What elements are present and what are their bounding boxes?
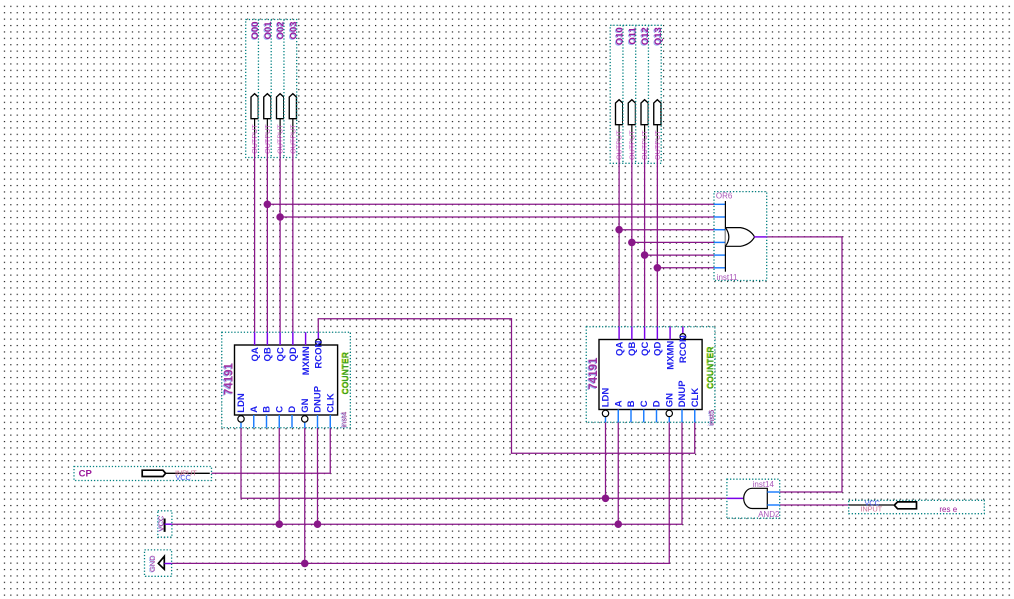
pin U2 C xyxy=(643,410,645,423)
svg-text:RCON: RCON xyxy=(678,335,689,363)
pin U1 DNUP xyxy=(317,415,319,428)
svg-text:LDN: LDN xyxy=(601,388,612,408)
wire OR6 output to AND2 input 1 xyxy=(767,237,842,492)
wire net Q10 to U2 QA xyxy=(618,143,620,327)
selection box left output group xyxy=(246,20,297,158)
counter U1 74191 xyxy=(222,332,351,428)
svg-text:LDN: LDN xyxy=(236,393,247,413)
pin U2 LDN with inversion bubble xyxy=(605,417,607,423)
input pin shape CP xyxy=(142,470,165,476)
wire net Q11 branch to OR6 input 4 xyxy=(632,241,714,243)
pin VCC xyxy=(165,523,172,525)
junction at Q13/OR6 input 6 xyxy=(654,264,662,272)
selection box right output group xyxy=(610,25,661,163)
junction at U1 C / VCC rail xyxy=(275,520,283,528)
svg-text:O03: O03 xyxy=(288,21,299,39)
wire net Q13 branch to OR6 input 6 xyxy=(657,267,714,269)
svg-text:QB: QB xyxy=(627,342,638,356)
wire net O03 to U1 QD xyxy=(292,137,294,333)
wire net O02 branch to OR6 input 2 xyxy=(280,216,714,218)
svg-text:QD: QD xyxy=(288,347,299,361)
pin OR6 input 5 xyxy=(714,254,725,256)
pin AND2 output xyxy=(727,497,743,499)
svg-text:B: B xyxy=(626,400,637,407)
output connector Q11 xyxy=(623,25,638,163)
junction at Q11/OR6 input 4 xyxy=(628,239,636,247)
wire net O00 to U1 QA xyxy=(254,137,256,333)
wire U2 A to VCC rail xyxy=(617,422,619,524)
wire net O02 to U1 QC xyxy=(279,137,281,333)
pin U2 QB xyxy=(631,327,633,340)
pin OR6 input 3 xyxy=(714,229,725,231)
pin AND2 input 2 xyxy=(767,504,779,506)
output connector Q10 xyxy=(610,25,625,163)
wire res_e input to AND2 input 2 xyxy=(780,504,849,506)
GND triangle xyxy=(158,556,164,569)
svg-text:DNUP: DNUP xyxy=(313,385,324,413)
junction at Q12/OR6 input 5 xyxy=(641,251,649,259)
junction at U2 A / VCC rail xyxy=(614,520,622,528)
wire net O01 to U1 QB xyxy=(266,137,268,333)
svg-text:QA: QA xyxy=(250,347,261,361)
pin U1 QC xyxy=(279,332,281,345)
wire net Q13 to U2 QD xyxy=(656,143,658,327)
svg-text:MXMN: MXMN xyxy=(665,341,676,370)
svg-text:QA: QA xyxy=(614,342,625,356)
svg-text:RCON: RCON xyxy=(314,340,325,368)
ground symbol GND xyxy=(145,550,172,576)
svg-text:VCC: VCC xyxy=(156,515,165,531)
pin GND xyxy=(164,563,171,565)
svg-text:inst4: inst4 xyxy=(340,412,349,428)
pin OR6 input 2 xyxy=(714,216,725,218)
wire U1 DNUP to VCC rail xyxy=(317,428,319,524)
svg-text:CP: CP xyxy=(79,468,93,479)
pin U1 GN with inversion bubble xyxy=(304,422,306,428)
pin U2 QA xyxy=(618,327,620,340)
pin U1 QD xyxy=(292,332,294,345)
wire LDN net from U1 LDN to AND2 output xyxy=(241,428,727,499)
output connector O02 xyxy=(271,20,286,158)
pin U1 MXMN xyxy=(305,332,307,345)
pin U2 DNUP xyxy=(681,410,683,423)
output connector O03 xyxy=(284,20,299,158)
pin U2 RCON with inversion bubble xyxy=(682,327,684,334)
wire VCC rail xyxy=(172,422,682,524)
wire U1 RCON to U2 CLK xyxy=(318,319,695,454)
wire net Q10 branch to OR6 input 3 xyxy=(619,229,714,231)
pin OR6 input 6 xyxy=(714,267,725,269)
svg-text:inst14: inst14 xyxy=(753,480,775,489)
svg-text:COUNTER: COUNTER xyxy=(706,346,716,389)
wire CP input to U1 CLK xyxy=(210,428,330,473)
pin AND2 input 1 xyxy=(767,491,779,493)
svg-text:74191: 74191 xyxy=(588,357,600,390)
input pin shape res_e xyxy=(849,504,894,506)
pin U1 C xyxy=(278,415,280,428)
pin U1 QB xyxy=(266,332,268,345)
pin U1 QA xyxy=(254,332,256,345)
and-gate AND2 body xyxy=(744,488,768,508)
pin U2 CLK xyxy=(694,410,696,423)
power symbol VCC xyxy=(156,511,172,537)
svg-text:QD: QD xyxy=(653,342,664,356)
pin U1 CLK xyxy=(329,415,331,428)
junction at O02/OR6 input 2 xyxy=(276,213,284,221)
svg-text:MXMN: MXMN xyxy=(301,346,312,375)
output connector Q12 xyxy=(636,25,651,163)
wire net Q11 to U2 QB xyxy=(631,143,633,327)
svg-text:GN: GN xyxy=(664,393,675,407)
svg-text:GND: GND xyxy=(148,555,157,572)
pin U2 QC xyxy=(644,327,646,340)
junction at U1 GN / GND rail xyxy=(301,560,309,568)
pin OR6 input 1 xyxy=(714,203,725,205)
pin U2 GN with inversion bubble xyxy=(668,417,670,423)
pin U1 B xyxy=(266,415,268,428)
wire net Q12 to U2 QC xyxy=(644,143,646,327)
svg-text:VCC: VCC xyxy=(176,473,192,482)
svg-text:C: C xyxy=(639,400,650,407)
svg-text:inst5: inst5 xyxy=(707,410,716,426)
junction at U1 DNUP / VCC rail xyxy=(314,520,322,528)
pin U1 RCON with inversion bubble xyxy=(317,332,319,339)
svg-text:QC: QC xyxy=(275,347,286,361)
output connector O01 xyxy=(258,20,273,158)
wire U1 GN to GND rail xyxy=(304,428,306,564)
svg-text:C: C xyxy=(274,406,285,413)
or-gate OR6 input bar xyxy=(724,201,726,272)
wire GND rail xyxy=(172,422,670,563)
svg-text:QB: QB xyxy=(263,347,274,361)
input connector CP xyxy=(74,467,212,482)
svg-text:D: D xyxy=(652,400,663,407)
svg-text:B: B xyxy=(262,406,273,413)
pin OR6 output xyxy=(754,236,767,238)
pin U1 LDN with inversion bubble xyxy=(240,422,242,428)
pin OR6 input 4 xyxy=(714,241,725,243)
svg-text:Q13: Q13 xyxy=(653,27,664,45)
wire net O01 branch to OR6 input 1 xyxy=(267,203,714,205)
pin U2 D xyxy=(656,410,658,423)
svg-text:COUNTER: COUNTER xyxy=(340,351,350,394)
svg-text:INPUT: INPUT xyxy=(861,505,883,514)
pin U2 MXMN xyxy=(669,327,671,340)
junction at Q10/OR6 input 3 xyxy=(615,226,623,234)
svg-text:GN: GN xyxy=(300,398,311,412)
pin U2 B xyxy=(630,410,632,423)
junction at O01/OR6 input 1 xyxy=(264,201,272,209)
svg-text:D: D xyxy=(287,406,298,413)
pin U2 QD xyxy=(656,327,658,340)
or-gate OR6 inst11 xyxy=(714,191,767,282)
wire U1 C to VCC rail xyxy=(278,428,280,524)
output connector Q13 xyxy=(648,25,663,163)
pin U1 D xyxy=(291,415,293,428)
svg-text:DNUP: DNUP xyxy=(677,380,688,408)
wire net Q12 branch to OR6 input 5 xyxy=(645,254,714,256)
pin U2 A xyxy=(617,410,619,423)
svg-text:OR6: OR6 xyxy=(716,191,733,200)
svg-text:inst11: inst11 xyxy=(717,273,738,282)
junction at U2 LDN / LDN net xyxy=(602,495,610,503)
svg-text:CLK: CLK xyxy=(325,393,336,413)
svg-text:CLK: CLK xyxy=(690,388,701,408)
counter U2 74191 xyxy=(586,327,716,427)
or-gate OR6 body xyxy=(725,228,754,247)
input connector res_e xyxy=(849,498,985,514)
svg-text:QC: QC xyxy=(640,342,651,356)
svg-text:res e: res e xyxy=(939,505,957,514)
wire U2 LDN branch xyxy=(605,422,607,498)
pin U1 A xyxy=(253,415,255,428)
svg-text:A: A xyxy=(249,406,260,413)
svg-text:AND2: AND2 xyxy=(758,510,780,519)
output connector O00 xyxy=(246,20,262,158)
VCC bar xyxy=(164,519,166,532)
svg-text:74191: 74191 xyxy=(224,363,236,396)
svg-text:A: A xyxy=(613,400,624,407)
and-gate AND2 inst14 (mirrored) xyxy=(727,479,780,519)
